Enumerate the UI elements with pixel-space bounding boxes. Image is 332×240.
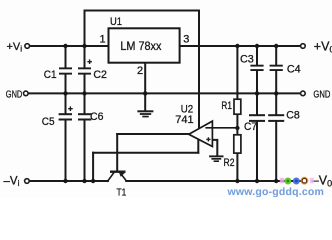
- svg-text:www.go-gddq.com: www.go-gddq.com: [227, 186, 324, 197]
- svg-text:741: 741: [175, 114, 193, 126]
- svg-text:–Vi: –Vi: [4, 176, 20, 189]
- svg-text:C6: C6: [90, 111, 104, 123]
- svg-text:C3: C3: [240, 54, 254, 66]
- svg-text:R1: R1: [221, 100, 232, 112]
- svg-text:3: 3: [183, 34, 189, 46]
- svg-text:LM 78xx: LM 78xx: [120, 41, 161, 53]
- svg-text:C5: C5: [42, 116, 55, 128]
- svg-text:+Vi: +Vi: [7, 41, 23, 54]
- svg-text:T1: T1: [117, 188, 127, 198]
- svg-text:C2: C2: [93, 69, 107, 81]
- svg-text:1: 1: [100, 34, 106, 46]
- svg-text:2: 2: [137, 65, 143, 77]
- svg-text:C7: C7: [244, 121, 257, 133]
- svg-text:U1: U1: [110, 16, 122, 28]
- svg-text:C8: C8: [286, 110, 300, 122]
- svg-text:R2: R2: [224, 157, 235, 169]
- svg-text:C4: C4: [287, 64, 301, 76]
- svg-text:GND: GND: [313, 89, 330, 101]
- svg-text:C1: C1: [44, 69, 57, 81]
- svg-text:GND: GND: [6, 89, 23, 101]
- svg-text:+V0: +V0: [314, 40, 332, 55]
